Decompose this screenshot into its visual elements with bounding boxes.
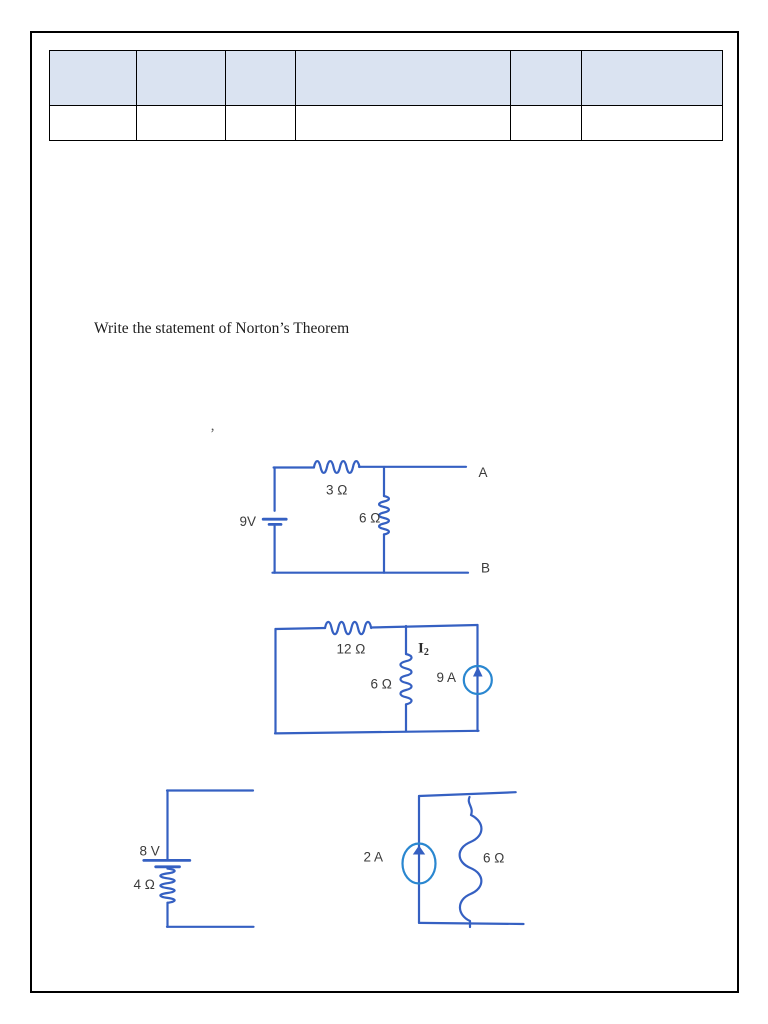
- wire: c2 top left segment: [276, 628, 326, 629]
- wire: c4 top horizontal: [419, 792, 516, 796]
- wire: c1 left vertical upper: [274, 468, 276, 511]
- svg-text:3 Ω: 3 Ω: [326, 483, 347, 498]
- svg-text:I2: I2: [418, 641, 429, 659]
- svg-text:B: B: [481, 561, 490, 576]
- svg-text:6 Ω: 6 Ω: [359, 511, 380, 526]
- wire: c4 left vertical: [418, 796, 420, 923]
- stray apostrophe mark: [210, 426, 215, 443]
- current source CS 2A ellipse: [403, 844, 436, 884]
- wire: c3 vertical upper: [166, 791, 168, 859]
- wire: c2 bottom: [275, 731, 479, 734]
- svg-text:9V: 9V: [240, 514, 257, 529]
- svg-text:6 Ω: 6 Ω: [371, 677, 392, 692]
- wire: c1 top left segment: [274, 466, 314, 468]
- wire: c1 left vertical lower: [274, 526, 276, 573]
- wire: c1 middle vertical lower: [383, 534, 385, 572]
- wire: c3 top horizontal: [167, 789, 253, 791]
- wire: c3 bottom horizontal: [167, 926, 254, 928]
- resistor R 6ohm zigzag vertical: [379, 496, 389, 535]
- svg-text:A: A: [479, 465, 488, 480]
- svg-text:6 Ω: 6 Ω: [483, 851, 504, 866]
- wire: c2 middle vertical lower: [405, 704, 407, 730]
- wire: c2 right vertical: [476, 625, 478, 731]
- wire: c1 top right segment to A: [359, 466, 466, 468]
- current source CS 9A circle: [464, 666, 492, 694]
- svg-text:12 Ω: 12 Ω: [337, 642, 366, 657]
- wire: c2 middle vertical upper: [405, 626, 407, 654]
- resistor R 6ohm zigzag vertical (c2): [400, 654, 411, 704]
- resistor R 6ohm wavy (hand drawn): [460, 797, 482, 927]
- battery V2 8V plates: [144, 860, 190, 866]
- question text: [94, 320, 349, 338]
- wire: c2 top right segment: [371, 625, 478, 628]
- svg-text:2 A: 2 A: [364, 850, 384, 865]
- wire: c3 vertical lower: [166, 903, 168, 927]
- current source 9A arrowhead: [473, 667, 483, 677]
- svg-text:8 V: 8 V: [140, 844, 160, 859]
- battery V1 9V plates: [263, 519, 286, 524]
- resistor R 4ohm zigzag vertical: [160, 869, 174, 903]
- wire: c3 vertical below battery: [166, 867, 168, 869]
- wire: c2 left vertical: [274, 629, 276, 733]
- resistor R 12ohm zigzag: [325, 622, 371, 634]
- current source 2A arrowhead: [413, 846, 425, 855]
- wire: c4 bottom horizontal: [419, 923, 524, 924]
- wire: c1 bottom to B: [273, 572, 469, 574]
- resistor R 3ohm zigzag: [314, 461, 360, 473]
- svg-text:4 Ω: 4 Ω: [134, 877, 155, 892]
- svg-text:9 A: 9 A: [437, 670, 457, 685]
- wire: c1 middle vertical upper: [383, 467, 385, 496]
- table (header row shaded): [49, 50, 723, 141]
